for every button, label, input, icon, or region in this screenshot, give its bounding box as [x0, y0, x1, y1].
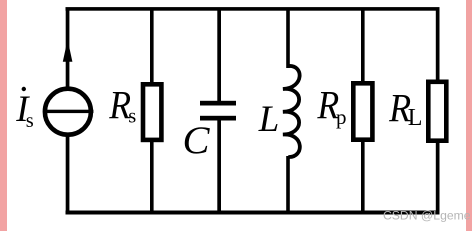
wire L branch top [286, 9, 290, 68]
svg-text:L: L [408, 105, 423, 131]
svg-text:s: s [26, 110, 34, 132]
label Is dot [22, 87, 26, 91]
wire Rp branch bottom [361, 140, 365, 213]
svg-text:CSDN @Lgeme: CSDN @Lgeme [383, 208, 471, 222]
wire C branch bottom [217, 119, 221, 213]
wire Rs branch bottom [150, 140, 154, 213]
wire top rail [66, 7, 440, 11]
inductor L coil [283, 66, 300, 157]
svg-text:p: p [336, 105, 347, 129]
wire RL branch top [436, 9, 440, 81]
current source U1 circle [45, 89, 91, 135]
wire C branch top [217, 9, 221, 102]
resistor Rs box [143, 84, 161, 140]
resistor RL box [428, 82, 446, 141]
wire bottom rail [66, 211, 440, 215]
resistor Rp box [353, 83, 372, 139]
current source arrow [63, 40, 73, 62]
wire source branch top [66, 9, 70, 88]
wire Rp branch top [361, 9, 365, 83]
wire Rs branch top [150, 9, 154, 84]
capacitor C bottom plate [200, 116, 236, 121]
wire L branch bottom [286, 156, 290, 213]
svg-text:s: s [128, 105, 136, 127]
svg-text:L: L [258, 99, 279, 140]
current source diameter line [43, 110, 93, 113]
wire RL branch bottom [436, 141, 440, 213]
left pink watermark bar [0, 0, 7, 231]
wire source branch bottom [66, 135, 70, 213]
right pink watermark bar [466, 0, 472, 231]
svg-text:C: C [183, 119, 211, 162]
capacitor C top plate [200, 101, 236, 106]
